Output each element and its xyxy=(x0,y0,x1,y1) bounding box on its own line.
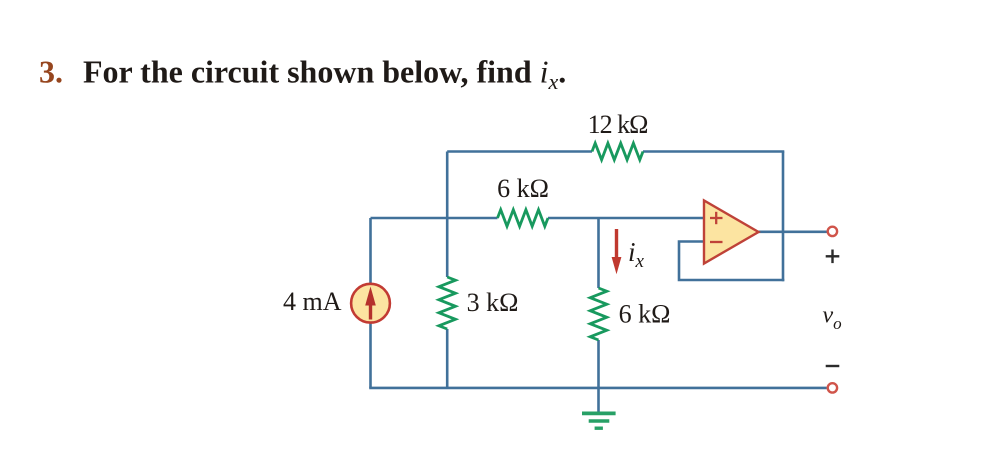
resistor 12 kOhm (top, horizontal) xyxy=(592,143,643,160)
wire middle-left (left node to 6k resistor) xyxy=(371,217,498,220)
svg-text:6 kΩ: 6 kΩ xyxy=(619,300,671,329)
svg-text:3 kΩ: 3 kΩ xyxy=(467,288,519,317)
wire 6k branch upper (ix node to 6k resistor) xyxy=(597,218,600,288)
svg-text:12 kΩ: 12 kΩ xyxy=(588,110,648,139)
svg-text:For the circuit shown below, f: For the circuit shown below, find ix. xyxy=(83,54,566,95)
current source 4 mA xyxy=(351,284,390,323)
wire 3k branch lower (3k resistor to bottom wire) xyxy=(446,329,449,388)
wire 6k branch lower (6k resistor through bottom rail to ground) xyxy=(597,340,600,412)
label plus sign at output xyxy=(826,250,840,264)
wire middle-right (6k resistor to op-amp + input) xyxy=(548,217,704,220)
svg-text:4 mA: 4 mA xyxy=(283,287,342,316)
label minus sign at bottom terminal xyxy=(826,365,840,367)
wire 3k branch upper (top wire to 3k resistor) xyxy=(446,152,449,278)
svg-text:vo: vo xyxy=(823,303,842,334)
wire bottom rail xyxy=(369,387,826,390)
wire feedback U from inverting input to output node xyxy=(679,242,784,281)
ground xyxy=(582,413,616,428)
resistor 6 kOhm (vertical, ix branch) xyxy=(590,288,607,340)
current arrow ix xyxy=(612,229,622,274)
svg-text:ix: ix xyxy=(628,237,645,272)
svg-text:6 kΩ: 6 kΩ xyxy=(497,174,549,203)
wire top-left segment (node A to 12k) xyxy=(447,150,592,153)
op-amp U1 xyxy=(704,201,759,264)
terminal (bottom) xyxy=(828,383,837,392)
wire op-amp output to terminal xyxy=(759,231,828,234)
wire right vertical (feedback from top to output node) xyxy=(782,152,785,282)
terminal (output, top) xyxy=(828,227,837,236)
wire top-right segment (12k to right corner) xyxy=(643,150,784,153)
svg-text:3.: 3. xyxy=(39,54,63,90)
resistor 6 kOhm (middle, horizontal) xyxy=(498,210,549,227)
wire left vertical branch with 4 mA source xyxy=(369,218,372,388)
resistor 3 kOhm (vertical) xyxy=(439,277,456,329)
